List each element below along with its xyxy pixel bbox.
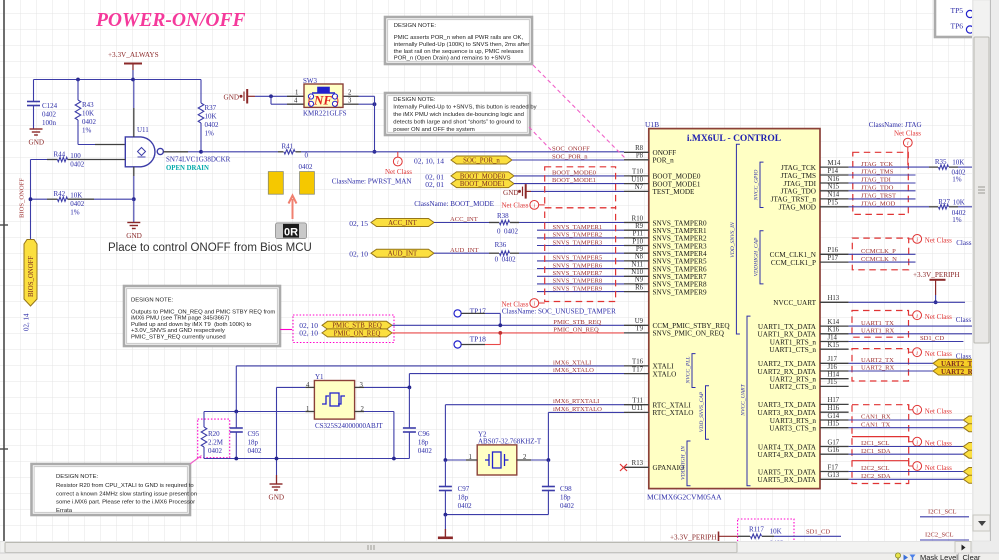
resistor pictorial 0R pads — [268, 172, 314, 195]
svg-text:VDDHIGH_CAP: VDDHIGH_CAP — [754, 237, 760, 276]
pin F17 UART5_TX_DATA — [820, 471, 849, 473]
svg-text:Net Class: Net Class — [925, 313, 952, 321]
svg-text:U9: U9 — [635, 318, 644, 325]
svg-text:T17: T17 — [632, 366, 644, 373]
net class directive I2C1 — [852, 436, 909, 438]
power group VDDHIGH_IN — [687, 441, 691, 486]
selection box PMIC ports — [293, 315, 394, 343]
wire — [444, 515, 446, 529]
svg-text:P16: P16 — [828, 247, 839, 254]
ground (U11) — [127, 223, 140, 229]
pin P17 CCM_CLK1_P — [820, 261, 849, 263]
svg-text:0402: 0402 — [299, 163, 314, 171]
power port +3.3V_ALWAYS — [108, 51, 159, 70]
svg-text:AUD_INT: AUD_INT — [388, 251, 418, 258]
svg-text:UART5_TX_DATA: UART5_TX_DATA — [758, 468, 817, 476]
wire UART2_TX — [849, 362, 933, 364]
svg-text:GND: GND — [224, 93, 240, 101]
svg-text:P11: P11 — [633, 231, 643, 238]
svg-text:C96: C96 — [418, 430, 430, 438]
wire I2C2_SCL bottom — [920, 539, 969, 541]
wire — [519, 222, 624, 224]
port CAN1_RX — [963, 416, 976, 424]
svg-text:J17: J17 — [828, 356, 838, 363]
svg-text:Net Class: Net Class — [925, 408, 952, 416]
wire — [531, 459, 548, 461]
wire to U11 input A — [78, 144, 95, 146]
svg-text:iMX6_RTXTALI: iMX6_RTXTALI — [553, 398, 599, 405]
svg-text:JTAG_TDI: JTAG_TDI — [783, 180, 816, 188]
wire — [547, 412, 549, 460]
svg-text:Class: Class — [956, 239, 972, 247]
junction — [234, 457, 238, 461]
pin N14 JTAG_TRST_n — [820, 198, 849, 200]
wire — [444, 405, 446, 460]
U11 GND pin — [133, 167, 135, 176]
svg-text:T16: T16 — [632, 359, 644, 366]
svg-text:PMIC_STB_REQ: PMIC_STB_REQ — [553, 319, 601, 326]
wire — [200, 80, 202, 104]
blanket SOC_UNUSED_TAMPER — [545, 208, 616, 302]
svg-text:internally Pulled-Up (100K) to: internally Pulled-Up (100K) to SNVS then… — [394, 42, 530, 48]
pin P15 JTAG_MOD — [820, 206, 849, 208]
svg-text:0402: 0402 — [418, 447, 433, 455]
wire — [133, 80, 135, 109]
svg-text:GPANAIO: GPANAIO — [653, 464, 685, 472]
pin P10 SNVS_TAMPER3 — [624, 245, 649, 247]
blanket UART2 — [852, 349, 909, 381]
power group VDDHIGH_CAP — [760, 231, 764, 284]
pin H16 UART3_RX_DATA — [820, 411, 849, 413]
power group NVCC_GPIO — [760, 162, 764, 207]
svg-text:VDD_SNVS_IN: VDD_SNVS_IN — [730, 222, 736, 258]
svg-text:P14: P14 — [828, 168, 839, 175]
wire — [393, 412, 395, 459]
wire — [408, 374, 410, 388]
pin T10 BOOT_MODE0 — [624, 175, 649, 177]
pin J16 UART2_RX_DATA — [820, 370, 849, 372]
wire — [94, 198, 134, 200]
wire — [849, 206, 929, 208]
svg-text:G17: G17 — [828, 439, 840, 446]
note pointer line — [533, 65, 626, 159]
svg-text:JTAG_TRST_n: JTAG_TRST_n — [771, 196, 817, 204]
svg-text:Outputs to PMIC_ON_REQ and PMI: Outputs to PMIC_ON_REQ and PMIC STBY REQ… — [131, 310, 275, 316]
wire PMIC_STB_REQ — [392, 324, 624, 326]
svg-text:CCM_CLK1_P: CCM_CLK1_P — [771, 259, 816, 267]
junction — [199, 150, 203, 154]
svg-text:0 0402: 0 0402 — [497, 228, 519, 236]
svg-text:J14: J14 — [828, 334, 838, 341]
pin P11 SNVS_TAMPER2 — [624, 237, 649, 239]
wire — [499, 313, 501, 325]
svg-text:JTAG_TDO: JTAG_TDO — [781, 188, 816, 196]
svg-text:0402: 0402 — [560, 502, 575, 510]
power group VDD_SNVS_CAP — [706, 386, 710, 440]
svg-text:4: 4 — [294, 97, 298, 104]
pin N16 JTAG_TDI — [820, 182, 849, 184]
svg-text:XTALO: XTALO — [653, 370, 677, 378]
svg-text:2.2M: 2.2M — [208, 439, 224, 447]
svg-text:i.MX6UL - CONTROL: i.MX6UL - CONTROL — [687, 134, 781, 144]
note pointer line — [280, 329, 292, 331]
svg-text:0 0402: 0 0402 — [495, 256, 516, 264]
svg-text:SNVS_TAMPER5: SNVS_TAMPER5 — [553, 255, 603, 262]
svg-text:TP17: TP17 — [470, 307, 487, 316]
wire I2C2_SCL — [849, 471, 964, 473]
svg-text:TEST_MODE: TEST_MODE — [653, 188, 696, 196]
svg-text:BOOT_MODE1: BOOT_MODE1 — [460, 181, 505, 188]
wire — [270, 96, 272, 104]
pin N7 TEST_MODE — [624, 190, 649, 192]
svg-text:detects both large and short “: detects both large and short “shorts” to… — [393, 120, 521, 126]
svg-text:VDD_SNVS_CAP: VDD_SNVS_CAP — [699, 391, 705, 432]
blanket JTAG — [853, 152, 909, 214]
svg-text:G16: G16 — [828, 447, 840, 454]
svg-text:Net Class: Net Class — [385, 168, 412, 176]
wire — [935, 295, 937, 302]
svg-text:Net Class: Net Class — [894, 130, 921, 138]
svg-text:3: 3 — [348, 97, 352, 104]
svg-text:GND: GND — [503, 189, 519, 197]
svg-text:POR_n: POR_n — [653, 157, 675, 165]
port I2C1_SCL — [963, 443, 976, 451]
svg-text:CS325S24000000ABJT: CS325S24000000ABJT — [315, 422, 383, 430]
svg-text:0: 0 — [305, 152, 309, 160]
svg-text:ACC_INT: ACC_INT — [388, 220, 418, 227]
wire — [359, 95, 375, 97]
svg-text:0402: 0402 — [208, 447, 223, 455]
switch SW3 KMR221GLFS — [287, 95, 304, 97]
net class directive CAN — [913, 405, 922, 414]
svg-text:Errata: Errata — [56, 508, 73, 514]
svg-text:10K: 10K — [770, 528, 782, 536]
wire — [537, 260, 624, 262]
wire — [485, 312, 500, 314]
svg-text:Net Class: Net Class — [925, 237, 952, 245]
junction — [373, 102, 377, 106]
wire — [235, 366, 237, 412]
wire — [547, 491, 549, 515]
svg-text:iMX6_RTXTALO: iMX6_RTXTALO — [553, 406, 602, 413]
design note box 2 — [385, 93, 530, 135]
wire — [537, 237, 624, 239]
wire CCMCLK_N — [849, 261, 916, 263]
wire — [203, 412, 205, 428]
svg-text:1: 1 — [295, 89, 298, 96]
svg-text:NF: NF — [313, 93, 332, 108]
pin N10 SNVS_TAMPER7 — [624, 275, 649, 277]
svg-text:Internally Pulled-Up to +SNVS,: Internally Pulled-Up to +SNVS, this butt… — [393, 105, 536, 111]
port UART2_RX — [933, 367, 976, 375]
wire — [33, 106, 35, 129]
resistor R20 — [198, 419, 230, 458]
port BIOS_ONOFF — [24, 240, 37, 307]
pin J14 UART1_RTS_n — [820, 341, 849, 343]
design note box (top right, clipped) — [935, 0, 999, 37]
svg-text:TP18: TP18 — [470, 335, 487, 344]
wire — [204, 411, 305, 413]
pin G17 UART4_TX_DATA — [820, 446, 849, 448]
svg-text:iMX6_XTALO: iMX6_XTALO — [553, 367, 594, 374]
port CAN1_TX — [963, 424, 976, 432]
svg-text:SNVS_TAMPER8: SNVS_TAMPER8 — [553, 278, 603, 285]
blanket BOOT_MODE — [545, 167, 616, 208]
blanket UART1 — [852, 311, 909, 338]
pin K16 UART1_RX_DATA — [820, 333, 849, 335]
svg-text:0402: 0402 — [70, 160, 85, 168]
svg-text:H15: H15 — [828, 421, 840, 428]
svg-text:SNVS_TAMPER9: SNVS_TAMPER9 — [553, 285, 603, 292]
svg-text:R41: R41 — [282, 143, 294, 151]
svg-text:0R: 0R — [284, 227, 298, 239]
wire — [485, 344, 500, 346]
svg-text:1%: 1% — [952, 176, 962, 184]
svg-text:10K: 10K — [82, 110, 94, 118]
no-connect GPANAIO — [620, 464, 627, 471]
svg-text:P17: P17 — [828, 255, 839, 262]
svg-text:UART5_RX_DATA: UART5_RX_DATA — [758, 476, 817, 484]
svg-text:DESIGN NOTE:: DESIGN NOTE: — [131, 298, 174, 304]
svg-text:100n: 100n — [42, 119, 57, 127]
svg-text:POWER-ON/OFF: POWER-ON/OFF — [95, 10, 246, 31]
svg-text:1%: 1% — [952, 216, 962, 224]
svg-text:1%: 1% — [205, 130, 215, 138]
svg-text:NVCC_PLL: NVCC_PLL — [686, 356, 692, 384]
svg-text:KMR221GLFS: KMR221GLFS — [303, 110, 347, 118]
svg-text:P9: P9 — [636, 246, 644, 253]
svg-text:0402: 0402 — [248, 447, 263, 455]
wire — [374, 96, 376, 152]
wire — [548, 411, 624, 413]
wire — [537, 291, 624, 293]
wire — [133, 176, 135, 199]
svg-text:U11: U11 — [632, 405, 643, 412]
svg-text:N16: N16 — [828, 176, 840, 183]
svg-text:1%: 1% — [70, 209, 80, 217]
junction — [132, 197, 136, 201]
wire — [958, 206, 972, 208]
wire CAN1_TX — [849, 427, 964, 429]
wire — [445, 514, 548, 516]
pin G16 UART4_RX_DATA — [820, 453, 849, 455]
design note box 1 — [385, 17, 532, 64]
wire — [255, 95, 287, 97]
wire — [203, 447, 205, 459]
pin G13 UART5_RX_DATA — [820, 478, 849, 480]
svg-text:R44: R44 — [54, 151, 66, 159]
svg-text:R27: R27 — [938, 198, 950, 206]
svg-text:N7: N7 — [635, 184, 644, 191]
ground (C124) — [30, 129, 43, 135]
svg-text:Net Class: Net Class — [925, 350, 952, 358]
svg-text:R10: R10 — [632, 215, 644, 222]
power group VDD_SNVS_IN — [736, 144, 740, 334]
junction — [131, 78, 135, 82]
svg-text:U10: U10 — [631, 176, 643, 183]
pin P14 JTAG_TMS — [820, 174, 849, 176]
svg-text:R42: R42 — [54, 190, 66, 198]
svg-text:R20: R20 — [208, 430, 220, 438]
pin R13 GPANAIO — [624, 466, 649, 468]
svg-text:N11: N11 — [632, 261, 643, 268]
resistor pictorial 0R body — [276, 223, 307, 239]
UI chrome — [0, 541, 999, 560]
svg-text:R43: R43 — [82, 101, 94, 109]
wire — [408, 432, 410, 459]
svg-text:power ON and OFF the system: power ON and OFF the system — [393, 127, 475, 133]
svg-text:some i.MX6 part. Please refer: some i.MX6 part. Please refer to the i.M… — [56, 500, 195, 506]
pin K15 UART1_CTS_n — [820, 348, 849, 350]
wire I2C1_SDA — [849, 453, 964, 455]
svg-text:H16: H16 — [828, 405, 840, 412]
svg-text:0402: 0402 — [205, 121, 220, 129]
power group NVCC_UART — [747, 316, 751, 486]
svg-text:N9: N9 — [635, 277, 644, 284]
svg-text:G14: G14 — [828, 413, 840, 420]
svg-text:Net Class: Net Class — [501, 201, 528, 209]
wire — [359, 103, 375, 105]
pin T16 XTALI — [624, 365, 649, 367]
svg-text:POR_n (Open Drain) and remains: POR_n (Open Drain) and remains to +SNVS — [394, 56, 511, 62]
svg-text:J16: J16 — [828, 364, 838, 371]
svg-text:I2C2_SCL: I2C2_SCL — [925, 531, 954, 538]
svg-text:SNVS_TAMPER6: SNVS_TAMPER6 — [553, 262, 603, 269]
net class directive PWRST_MAN — [397, 152, 399, 157]
svg-text:02, 10: 02, 10 — [299, 328, 318, 337]
wire — [200, 123, 202, 152]
svg-text:ClassName: JTAG: ClassName: JTAG — [869, 121, 922, 129]
svg-text:R13: R13 — [632, 460, 644, 467]
wire — [188, 151, 201, 153]
junction — [498, 331, 502, 335]
junction — [275, 457, 279, 461]
svg-text:PMIC_ON_REQ: PMIC_ON_REQ — [334, 330, 381, 337]
svg-text:the iMX PMU wich includes de-b: the iMX PMU wich includes de-bouncing lo… — [393, 112, 524, 118]
pin J15 UART2_CTS_n — [820, 385, 849, 387]
wire — [434, 222, 489, 224]
pin J17 UART2_TX_DATA — [820, 362, 849, 364]
svg-text:T10: T10 — [632, 169, 644, 176]
annotation arrow — [289, 196, 297, 220]
wire — [204, 458, 409, 460]
wire — [499, 333, 501, 345]
svg-text:GND: GND — [269, 494, 285, 502]
pin H15 UART3_CTS_n — [820, 427, 849, 429]
wire — [547, 460, 549, 486]
svg-text:R38: R38 — [497, 212, 509, 220]
blanket CAN/I2C — [852, 405, 909, 484]
svg-text:UART1_CTS_n: UART1_CTS_n — [769, 346, 816, 354]
svg-text:H13: H13 — [828, 295, 840, 302]
svg-text:10K: 10K — [952, 159, 964, 167]
svg-text:I2C1_SCL: I2C1_SCL — [928, 509, 957, 516]
wire BOOT_MODE0 — [514, 175, 624, 177]
svg-text:U11: U11 — [137, 126, 149, 134]
junction — [498, 323, 502, 327]
svg-text:18p: 18p — [418, 439, 429, 447]
svg-text:02, 15: 02, 15 — [349, 219, 368, 228]
junction — [373, 150, 377, 154]
svg-text:Class: Class — [956, 316, 972, 324]
svg-text:T9: T9 — [635, 326, 643, 333]
svg-text:Resistor R20 from CPU_XTALI to: Resistor R20 from CPU_XTALI to GND is re… — [56, 483, 194, 489]
svg-text:correct a known 24MHz slow sta: correct a known 24MHz slow starting issu… — [56, 491, 197, 497]
wire — [31, 159, 48, 161]
svg-text:BOOT_MODE1: BOOT_MODE1 — [552, 177, 596, 184]
wire — [444, 491, 446, 515]
svg-text:DESIGN NOTE:: DESIGN NOTE: — [56, 474, 99, 480]
svg-text:P10: P10 — [632, 238, 643, 245]
svg-text:GND: GND — [29, 139, 45, 147]
svg-text:SNVS_PMIC_ON_REQ: SNVS_PMIC_ON_REQ — [653, 330, 725, 338]
svg-text:Place to control ONOFF from Bi: Place to control ONOFF from Bios MCU — [108, 242, 312, 254]
svg-text:the last rail on the sequence: the last rail on the sequence is up, PMI… — [394, 49, 524, 55]
pin U11 RTC_XTALO — [624, 411, 649, 413]
svg-text:SNVS_TAMPER2: SNVS_TAMPER2 — [553, 232, 603, 239]
pin T9 SNVS_PMIC_ON_REQ — [624, 332, 649, 334]
wire — [201, 151, 278, 153]
wire — [849, 166, 929, 168]
wire — [408, 387, 410, 427]
wire — [30, 160, 32, 240]
wire CCMCLK_P — [849, 253, 916, 255]
svg-text:UART4_RX_DATA: UART4_RX_DATA — [758, 451, 817, 459]
pin R10 SNVS_TAMPER0 — [624, 222, 649, 224]
svg-text:18p: 18p — [458, 494, 469, 502]
svg-text:1%: 1% — [82, 127, 92, 135]
op-amp U11 NAND gate SN74LVC1G38DCKR — [125, 137, 163, 167]
svg-text:RTC_XTALO: RTC_XTALO — [653, 409, 694, 417]
svg-text:VDDHIGH_IN: VDDHIGH_IN — [681, 446, 687, 480]
pin N15 JTAG_TDO — [820, 190, 849, 192]
pin U10 BOOT_MODE1 — [624, 183, 649, 185]
svg-text:PMIC asserts POR_n when all PW: PMIC asserts POR_n when all PWR rails ar… — [394, 35, 524, 41]
svg-text:NVCC_UART: NVCC_UART — [741, 383, 747, 416]
wire — [409, 373, 624, 375]
svg-text:C95: C95 — [248, 430, 260, 438]
pin M14 JTAG_TCK — [820, 166, 849, 168]
pin H14 UART2_RTS_n — [820, 378, 849, 380]
open drain symbol — [138, 148, 146, 158]
blanket CCM_CLK — [852, 238, 908, 270]
sheet border — [3, 0, 5, 541]
svg-text:ClassName: BOOT_MODE: ClassName: BOOT_MODE — [414, 200, 494, 208]
wire — [276, 387, 278, 475]
svg-text:SNVS_TAMPER7: SNVS_TAMPER7 — [553, 270, 603, 277]
svg-text:CCM_CLK1_N: CCM_CLK1_N — [770, 251, 817, 259]
svg-text:JTAG_TMS: JTAG_TMS — [781, 172, 816, 180]
junction — [934, 300, 938, 304]
design note box 4 — [32, 464, 191, 515]
wire — [364, 386, 409, 388]
svg-text:02, 10: 02, 10 — [349, 250, 368, 259]
svg-text:BOOT_MODE0: BOOT_MODE0 — [552, 169, 597, 176]
wire — [537, 245, 624, 247]
svg-text:N15: N15 — [828, 184, 840, 191]
svg-text:BOOT_MODE1: BOOT_MODE1 — [653, 180, 701, 188]
wire U11 output / SOC_ONOFF — [164, 151, 189, 153]
junction — [29, 197, 33, 201]
svg-text:02, 10, 14: 02, 10, 14 — [414, 157, 444, 166]
svg-text:0402: 0402 — [458, 502, 473, 510]
svg-text:T11: T11 — [632, 398, 643, 405]
svg-text:+3.3V_ALWAYS: +3.3V_ALWAYS — [108, 51, 159, 59]
wire UART2_RX — [849, 370, 933, 372]
svg-text:C97: C97 — [458, 485, 470, 493]
svg-text:R9: R9 — [635, 223, 644, 230]
wire — [444, 460, 446, 486]
